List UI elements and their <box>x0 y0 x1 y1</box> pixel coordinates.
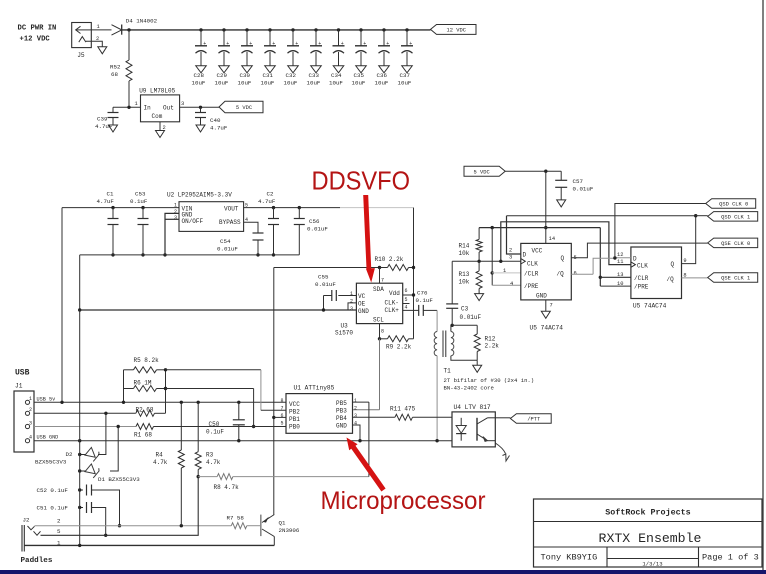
svg-text:Q: Q <box>671 261 675 268</box>
wire SCL down to PB3 <box>379 339 381 410</box>
svg-text:DDSVFO: DDSVFO <box>312 166 411 196</box>
resistor R8 4.7k <box>197 475 200 478</box>
wire J2 pin5 (dah) line <box>41 477 199 535</box>
svg-text:Q: Q <box>561 255 565 262</box>
tag QSD CLK 1 <box>708 212 758 222</box>
svg-text:D: D <box>633 255 637 262</box>
svg-text:/PTT: /PTT <box>527 417 541 423</box>
ground at J5 pin 2 <box>98 47 107 54</box>
svg-text:R7 58: R7 58 <box>227 515 245 522</box>
svg-text:10uF: 10uF <box>375 79 389 86</box>
svg-text:PB1: PB1 <box>289 416 300 423</box>
resistor R52 68 <box>127 28 130 31</box>
svg-text:Page 1 of 3: Page 1 of 3 <box>702 553 759 563</box>
svg-text:U5 74AC74: U5 74AC74 <box>633 303 667 310</box>
svg-text:5: 5 <box>281 421 284 427</box>
svg-text:2T bifilar of #30 (2x4 in.): 2T bifilar of #30 (2x4 in.) <box>444 377 535 384</box>
svg-text:2: 2 <box>163 125 166 131</box>
svg-text:R1 68: R1 68 <box>134 432 152 439</box>
capacitor C28 10uF <box>199 28 202 31</box>
svg-text:6: 6 <box>405 288 408 294</box>
svg-text:Microprocessor: Microprocessor <box>321 487 486 515</box>
U2 GND + ON/OFF tie-down wire <box>165 213 179 255</box>
resistor R13 10k <box>478 261 480 271</box>
svg-text:D4 1N4002: D4 1N4002 <box>126 18 158 25</box>
annotation arrow to Si570 <box>363 195 375 283</box>
wire J2 pin2 (dit) line <box>35 525 232 527</box>
wire SDA column (R10 - PB1 - Q1) <box>273 268 275 515</box>
svg-text:CLK: CLK <box>637 262 648 269</box>
resistor R11 475 <box>353 416 395 418</box>
capacitor C30 10uF <box>245 28 248 31</box>
svg-text:+: + <box>341 41 344 47</box>
svg-text:Vdd: Vdd <box>389 290 400 297</box>
wire 3.3V ground bus <box>80 254 300 256</box>
resistor R14 10k <box>478 228 480 240</box>
wire GND column (left) <box>79 310 81 545</box>
svg-text:C28: C28 <box>194 72 205 79</box>
wire +12V bus <box>122 29 431 31</box>
wire U5b /Q8 to QSE CLK 1 <box>682 277 708 279</box>
svg-text:C76: C76 <box>417 290 428 297</box>
wire VCC drop to U5a pin 14 <box>545 171 547 243</box>
svg-text:3: 3 <box>29 420 32 426</box>
svg-text:VCC: VCC <box>532 248 543 255</box>
wire SCL pin stub <box>379 324 381 339</box>
svg-text:7: 7 <box>550 303 553 309</box>
svg-text:8: 8 <box>381 329 384 335</box>
wire U9 Out to 5VDC tag <box>180 106 219 108</box>
transistor Q1 2N3906 <box>260 515 262 537</box>
svg-text:10uF: 10uF <box>192 79 206 86</box>
transformer T1 secondary <box>451 332 454 356</box>
svg-text:1: 1 <box>135 101 138 107</box>
svg-text:C51 0.1uF: C51 0.1uF <box>37 505 69 512</box>
flip-flop U5a 74AC74 <box>521 243 572 300</box>
tag 12 VDC <box>431 24 477 34</box>
svg-text:C29: C29 <box>217 72 228 79</box>
svg-text:+: + <box>295 41 298 47</box>
svg-text:R52: R52 <box>110 64 121 71</box>
svg-text:2: 2 <box>174 209 177 215</box>
svg-text:Paddles: Paddles <box>21 557 53 565</box>
svg-text:+: + <box>272 41 275 47</box>
svg-text:C39: C39 <box>97 116 108 123</box>
wire SDA pin stub <box>379 268 381 284</box>
svg-text:0.01uF: 0.01uF <box>315 281 336 288</box>
svg-text:R8 4.7k: R8 4.7k <box>214 484 240 491</box>
svg-text:10k: 10k <box>459 250 470 257</box>
svg-text:2: 2 <box>509 248 512 254</box>
wire heavy ground line to Si570 GND <box>80 309 357 311</box>
svg-text:1/3/13: 1/3/13 <box>642 561 662 568</box>
wire R52 to U9 In <box>113 106 141 108</box>
svg-text:J1: J1 <box>15 383 23 390</box>
svg-text:R9 2.2k: R9 2.2k <box>386 344 412 351</box>
svg-text:C57: C57 <box>573 178 584 185</box>
wire ground bus drop at left <box>79 255 81 310</box>
svg-text:R14: R14 <box>459 243 470 250</box>
svg-text:OE: OE <box>358 301 366 308</box>
junction PB1 to SDA column <box>272 416 275 419</box>
svg-text:U4 LTV 817: U4 LTV 817 <box>454 404 491 411</box>
transformer T1 primary (gray line with winding) <box>436 310 438 331</box>
svg-text:BN-43-2402 core: BN-43-2402 core <box>444 385 494 392</box>
svg-text:14: 14 <box>549 236 555 242</box>
wire J2 pin1 (common) line <box>24 544 274 546</box>
wire U5b Q9 to QSD CLK 1 and U5a D2 <box>682 216 696 264</box>
flip-flop U5b 74AC74 <box>631 247 682 299</box>
capacitor C54 0.01uF on BYPASS <box>244 222 258 233</box>
diode D4 1N4002 <box>91 29 111 31</box>
capacitor C1 4.7uF <box>111 206 114 209</box>
svg-text:D2: D2 <box>66 451 73 458</box>
title block frame <box>534 499 763 567</box>
svg-text:GND: GND <box>536 293 547 300</box>
wire clock to U5b CLK11 <box>501 222 631 265</box>
svg-text:2: 2 <box>96 36 99 42</box>
svg-text:+12 VDC: +12 VDC <box>20 36 51 44</box>
capacitor C2 4.7uF <box>272 206 275 209</box>
svg-text:In: In <box>144 105 152 112</box>
svg-text:/Q: /Q <box>667 276 675 283</box>
svg-text:10uF: 10uF <box>398 79 412 86</box>
wire 3.3V rail drop to Vdd/R10/R9 column <box>413 208 415 339</box>
svg-text:CLK: CLK <box>527 260 538 267</box>
svg-text:BYPASS: BYPASS <box>219 219 241 226</box>
IC U3 Si570 <box>356 283 402 323</box>
svg-text:C30: C30 <box>240 72 251 79</box>
svg-text:0.01uF: 0.01uF <box>573 186 594 193</box>
svg-text:R10 2.2k: R10 2.2k <box>375 256 404 263</box>
svg-text:R12: R12 <box>485 336 496 343</box>
wire USB GND (pin4) <box>34 440 452 442</box>
svg-text:U3: U3 <box>341 323 349 330</box>
svg-text:1: 1 <box>503 268 506 274</box>
capacitor C39 4.7uF <box>112 107 114 112</box>
svg-text:+: + <box>203 41 206 47</box>
capacitor C57 0.01uF <box>560 171 562 180</box>
bottom navy bar <box>0 570 766 574</box>
Si570 CLK- pin stub <box>403 303 410 305</box>
svg-text:SCL: SCL <box>373 317 384 324</box>
svg-text:C37: C37 <box>400 72 411 79</box>
svg-text:VCC: VCC <box>289 401 300 408</box>
svg-text:3: 3 <box>509 255 512 261</box>
tag /PTT <box>510 414 551 424</box>
svg-text:0.1uF: 0.1uF <box>130 198 148 205</box>
svg-text:C33: C33 <box>309 72 320 79</box>
wire R5/R6 left tie to 5V <box>123 370 125 403</box>
svg-text:+: + <box>363 41 366 47</box>
svg-text:3: 3 <box>174 215 177 221</box>
svg-text:USB 5v: USB 5v <box>37 397 56 403</box>
capacitor C53 0.1uF <box>141 206 144 209</box>
connector J5 <box>72 23 92 48</box>
svg-text:1: 1 <box>97 24 100 30</box>
svg-text:QSE CLK 1: QSE CLK 1 <box>721 276 750 282</box>
svg-text:CLK+: CLK+ <box>385 307 400 314</box>
svg-text:+: + <box>409 41 412 47</box>
svg-text:3: 3 <box>350 306 353 312</box>
svg-text:PB5: PB5 <box>336 400 347 407</box>
U4 emitter lead with arrow <box>495 443 505 454</box>
capacitor C32 10uF <box>291 28 294 31</box>
J5 pin 2 wire <box>86 41 102 47</box>
svg-text:10uF: 10uF <box>307 79 321 86</box>
svg-text:C31: C31 <box>263 72 274 79</box>
wire clock line C3 to U5a CLK <box>452 260 521 262</box>
capacitor C31 10uF <box>268 28 271 31</box>
wire 5V to C57 <box>505 170 561 172</box>
svg-text:R13: R13 <box>459 271 470 278</box>
svg-text:/PRE: /PRE <box>634 284 649 291</box>
svg-text:J5: J5 <box>77 52 85 59</box>
svg-text:C2: C2 <box>267 191 274 198</box>
svg-text:C1: C1 <box>107 191 114 198</box>
svg-text:8: 8 <box>281 398 284 404</box>
svg-text:U2 LP2952AIM5-3.3V: U2 LP2952AIM5-3.3V <box>167 192 232 199</box>
svg-text:VOUT: VOUT <box>224 205 239 212</box>
svg-text:/Q: /Q <box>557 270 565 277</box>
wire U5a Q5 to QSE CLK 0 <box>571 243 707 258</box>
svg-text:SDA: SDA <box>373 286 384 293</box>
wire U5b CLR/PRE tie <box>599 228 601 287</box>
svg-text:SoftRock Projects: SoftRock Projects <box>605 508 690 518</box>
svg-text:D: D <box>523 252 527 259</box>
svg-text:C50: C50 <box>209 421 220 428</box>
svg-text:+: + <box>318 41 321 47</box>
svg-text:PB0: PB0 <box>289 423 300 430</box>
svg-text:6: 6 <box>574 271 577 277</box>
svg-text:4.7k: 4.7k <box>153 459 168 466</box>
svg-text:C55: C55 <box>318 274 329 281</box>
svg-text:4: 4 <box>405 305 408 311</box>
tag 5 VDC feeding U5 <box>464 166 505 176</box>
svg-text:0.1uF: 0.1uF <box>206 429 224 436</box>
wire GND pin drop <box>353 425 361 441</box>
annotation arrow to ATtiny85 <box>347 438 386 492</box>
svg-text:USB: USB <box>15 369 30 378</box>
svg-text:+: + <box>226 41 229 47</box>
svg-text:4.7uF: 4.7uF <box>95 123 113 130</box>
svg-text:3: 3 <box>181 101 184 107</box>
svg-text:7: 7 <box>281 406 284 412</box>
wire 5V rail to CLR/PRE pins (both FFs) <box>479 227 600 229</box>
svg-text:Com: Com <box>152 113 163 120</box>
svg-text:4.7k: 4.7k <box>206 459 221 466</box>
svg-text:U1 ATTiny85: U1 ATTiny85 <box>294 385 335 392</box>
svg-text:10uF: 10uF <box>215 79 229 86</box>
svg-text:U5 74AC74: U5 74AC74 <box>530 325 564 332</box>
svg-text:10uF: 10uF <box>352 79 366 86</box>
svg-text:ON/OFF: ON/OFF <box>182 218 204 225</box>
capacitor C50 0.1uF <box>237 401 240 404</box>
wire rail left drop to USB 5v <box>61 208 63 403</box>
svg-text:4: 4 <box>510 281 513 287</box>
svg-text:DC PWR IN: DC PWR IN <box>18 25 57 33</box>
svg-text:BZX55C3V3: BZX55C3V3 <box>35 459 67 466</box>
svg-text:C3: C3 <box>461 306 469 313</box>
svg-text:D1 BZX55C3V3: D1 BZX55C3V3 <box>98 476 140 483</box>
tag QSD CLK 0 <box>706 199 756 209</box>
svg-text:C40: C40 <box>210 117 221 124</box>
svg-text:1: 1 <box>350 291 353 297</box>
page border right edge <box>762 0 764 570</box>
tag 5 VDC (power output) <box>219 101 263 113</box>
zener D2 BZX55C3V3 <box>80 454 86 456</box>
svg-text:J2: J2 <box>23 517 30 524</box>
svg-text:/CLR: /CLR <box>634 275 649 282</box>
wire USB 5v (pin1) <box>34 401 286 403</box>
svg-text:QSE CLK 0: QSE CLK 0 <box>721 241 750 247</box>
svg-text:VC: VC <box>358 293 366 300</box>
wire D1 to D+ line <box>110 427 118 472</box>
svg-text:C36: C36 <box>377 72 388 79</box>
svg-text:Out: Out <box>163 105 174 112</box>
svg-text:10: 10 <box>617 281 623 287</box>
wire OE tie to ground <box>348 303 356 310</box>
svg-text:CLK-: CLK- <box>385 300 399 307</box>
svg-text:C56: C56 <box>309 218 320 225</box>
wire R6 line to D+ node <box>166 388 254 390</box>
svg-text:/CLR: /CLR <box>524 270 539 277</box>
svg-text:R5 8.2k: R5 8.2k <box>134 357 160 364</box>
svg-text:QSD CLK 1: QSD CLK 1 <box>721 215 750 221</box>
svg-text:1: 1 <box>29 396 32 402</box>
svg-text:0.01uF: 0.01uF <box>217 246 238 253</box>
svg-text:7: 7 <box>381 278 384 284</box>
svg-text:0.01uF: 0.01uF <box>460 314 482 321</box>
svg-text:2: 2 <box>29 407 32 413</box>
resistor R4 4.7k <box>180 401 183 404</box>
svg-text:C53: C53 <box>135 191 146 198</box>
wire U4 to /PTT tag <box>495 417 510 419</box>
svg-text:3: 3 <box>354 413 357 419</box>
wire U5a CLR/PRE tie <box>491 228 493 286</box>
svg-text:Si570: Si570 <box>335 330 353 337</box>
svg-text:C54: C54 <box>220 238 231 245</box>
svg-text:4.7uF: 4.7uF <box>210 125 228 132</box>
wire USB 5V rail (to U2 VIN) <box>62 207 179 209</box>
svg-text:RXTX Ensemble: RXTX Ensemble <box>599 531 702 546</box>
svg-text:12: 12 <box>617 252 623 258</box>
svg-text:4: 4 <box>354 421 357 427</box>
svg-text:PB2: PB2 <box>289 408 300 415</box>
svg-text:68: 68 <box>111 71 118 78</box>
svg-text:Q1: Q1 <box>279 520 286 527</box>
svg-text:2: 2 <box>354 406 357 412</box>
U9 Com pin ground <box>159 122 161 131</box>
svg-text:10uF: 10uF <box>238 79 252 86</box>
svg-text:12 VDC: 12 VDC <box>447 28 466 34</box>
resistor R3 4.7k <box>197 401 200 404</box>
svg-text:C34: C34 <box>331 72 342 79</box>
resistor R9 2.2k <box>378 337 381 340</box>
svg-text:+: + <box>386 41 389 47</box>
svg-text:5: 5 <box>405 297 408 303</box>
tag QSE CLK 0 <box>708 238 758 248</box>
svg-text:Tony KB9YIG: Tony KB9YIG <box>541 553 598 563</box>
svg-text:2: 2 <box>350 299 353 305</box>
capacitor C3 0.01uF <box>451 324 454 327</box>
wire SDA pullup line <box>274 267 380 269</box>
svg-text:PB4: PB4 <box>336 415 347 422</box>
svg-text:R11 475: R11 475 <box>390 406 416 413</box>
ground under R12 <box>476 360 478 365</box>
wire U5a /Q6 to U5b D12 and QSD CLK 0 <box>571 273 593 275</box>
svg-text:10uF: 10uF <box>284 79 298 86</box>
wire D2 to D- line <box>98 413 106 454</box>
wire D+ line to PB0 <box>154 426 287 428</box>
capacitor C36 10uF <box>382 28 385 31</box>
svg-text:6: 6 <box>281 413 284 419</box>
capacitor C29 10uF <box>222 28 225 31</box>
wire R5 line to PB2 <box>166 369 261 371</box>
svg-text:R3: R3 <box>206 452 214 459</box>
svg-text:4: 4 <box>29 435 32 441</box>
svg-text:5: 5 <box>57 528 61 535</box>
svg-text:T1: T1 <box>444 368 452 375</box>
svg-text:/PRE: /PRE <box>524 283 539 290</box>
svg-text:5 VDC: 5 VDC <box>474 169 490 175</box>
svg-text:1: 1 <box>354 398 357 404</box>
svg-text:USB GND: USB GND <box>37 435 59 441</box>
wire USB D+ (pin3) <box>34 426 136 428</box>
capacitor C34 10uF <box>337 28 340 31</box>
svg-text:C35: C35 <box>354 72 365 79</box>
svg-text:1: 1 <box>174 203 177 209</box>
svg-text:2.2k: 2.2k <box>485 343 500 350</box>
capacitor C40 4.7uF <box>199 106 202 109</box>
svg-text:GND: GND <box>336 423 347 430</box>
svg-text:0.01uF: 0.01uF <box>307 226 328 233</box>
svg-text:4.7uF: 4.7uF <box>97 198 115 205</box>
transformer T1 core <box>442 331 444 358</box>
svg-text:C52 0.1uF: C52 0.1uF <box>37 487 69 494</box>
svg-text:2N3906: 2N3906 <box>279 527 300 534</box>
capacitor C56 0.01uF <box>298 206 301 209</box>
resistor R1 68 <box>136 424 154 430</box>
U5a GND pin 7 ground <box>545 300 547 311</box>
wire R8 to PB5 <box>368 402 370 477</box>
svg-text:13: 13 <box>617 272 623 278</box>
svg-text:10uF: 10uF <box>261 79 275 86</box>
svg-text:GND: GND <box>358 308 369 315</box>
wire USB D- (pin2) <box>34 412 136 414</box>
resistor R10 2.2k <box>378 266 381 269</box>
svg-text:R4: R4 <box>156 452 164 459</box>
svg-text:+: + <box>249 41 252 47</box>
wire R5/R6 right tie to D- <box>165 370 167 414</box>
svg-text:0.1uF: 0.1uF <box>416 297 434 304</box>
wire Vdd to 3.3V column <box>403 294 414 296</box>
svg-text:C32: C32 <box>286 72 297 79</box>
svg-text:10k: 10k <box>459 279 470 286</box>
resistor R12 2.2k <box>452 324 477 326</box>
svg-text:U9 LM78L05: U9 LM78L05 <box>139 88 175 95</box>
svg-text:10uF: 10uF <box>329 79 343 86</box>
capacitor C37 10uF <box>405 28 408 31</box>
svg-text:QSD CLK 0: QSD CLK 0 <box>719 202 748 208</box>
capacitor C55 0.01uF on VC <box>338 295 356 297</box>
ground under R13 <box>475 294 484 301</box>
zener D1 BZX55C3V3 <box>80 470 86 472</box>
svg-text:4.7uF: 4.7uF <box>258 198 276 205</box>
svg-text:2: 2 <box>57 518 61 525</box>
capacitor C33 10uF <box>314 28 317 31</box>
svg-text:PB3: PB3 <box>336 408 347 415</box>
